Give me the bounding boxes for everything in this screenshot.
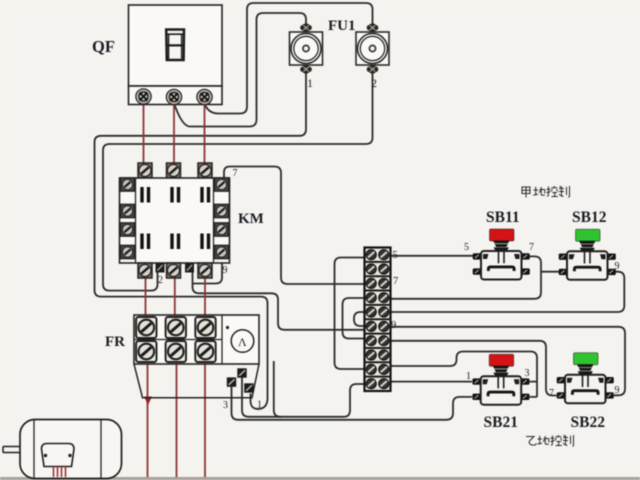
svg-text:3: 3: [223, 400, 228, 411]
svg-text:2: 2: [158, 275, 163, 286]
svg-text:7: 7: [549, 388, 554, 399]
svg-text:5: 5: [393, 250, 398, 261]
svg-text:KM: KM: [238, 211, 264, 227]
svg-text:9: 9: [615, 385, 620, 396]
svg-text:QF: QF: [92, 37, 115, 56]
svg-text:FR: FR: [105, 334, 125, 350]
svg-text:1: 1: [466, 371, 471, 382]
svg-text:SB21: SB21: [484, 414, 518, 431]
svg-text:9: 9: [223, 265, 228, 276]
svg-text:SB12: SB12: [572, 209, 607, 226]
svg-text:SB22: SB22: [571, 414, 606, 431]
svg-text:SB11: SB11: [486, 209, 520, 226]
svg-text:FU1: FU1: [328, 18, 356, 34]
svg-text:1: 1: [257, 400, 262, 411]
svg-text:7: 7: [529, 242, 534, 253]
svg-text:7: 7: [393, 276, 398, 287]
svg-text:9: 9: [391, 320, 396, 331]
svg-text:3: 3: [525, 368, 530, 379]
svg-text:7: 7: [233, 168, 238, 179]
svg-text:5: 5: [464, 242, 469, 253]
svg-text:9: 9: [615, 261, 620, 272]
svg-text:1: 1: [307, 76, 313, 90]
svg-text:2: 2: [371, 76, 377, 90]
svg-text:Λ: Λ: [238, 335, 247, 349]
